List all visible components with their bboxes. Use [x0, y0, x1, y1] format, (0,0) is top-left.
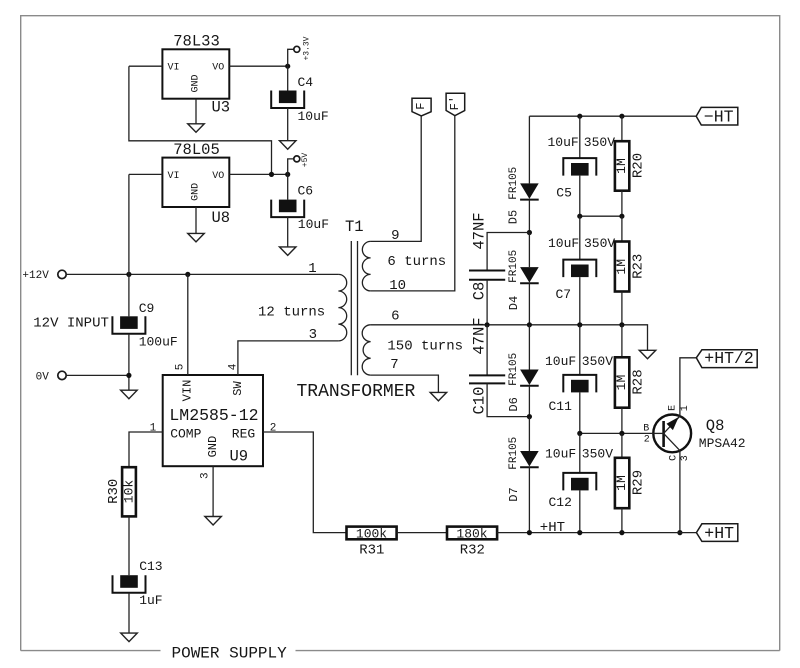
Q8 pin labels E 1	[668, 405, 691, 411]
node +5V junction	[285, 172, 290, 177]
svg-text:C11: C11	[549, 399, 573, 414]
node mid rail C8	[485, 322, 490, 327]
label +5V	[301, 153, 310, 168]
wire R30 to C13	[128, 516, 130, 575]
svg-text:R31: R31	[359, 542, 384, 558]
svg-text:+HT: +HT	[540, 520, 565, 536]
svg-text:R28: R28	[631, 369, 647, 394]
wire C6 to ground	[287, 217, 289, 247]
wire C9 to 0V rail	[128, 334, 130, 390]
svg-text:VO: VO	[212, 171, 224, 182]
wire D5 to node	[528, 200, 530, 233]
ground below T1 pin 7	[430, 392, 447, 401]
svg-text:1M: 1M	[614, 158, 629, 174]
wire R29 bottom to +HT rail	[621, 508, 623, 532]
svg-text:1M: 1M	[614, 259, 629, 275]
svg-text:D6: D6	[507, 397, 521, 411]
wire C7 top	[579, 216, 581, 259]
ground below U9	[205, 517, 222, 526]
node D5-D4 to C8	[527, 230, 532, 235]
capacitor C13	[113, 559, 163, 608]
T1 pin 1 number	[308, 261, 316, 277]
wire R20 top	[621, 116, 623, 141]
node +12V to U9 VIN	[185, 272, 190, 277]
svg-text:C9: C9	[139, 301, 155, 316]
svg-text:2: 2	[270, 422, 277, 434]
wire C5 bottom to rail B	[579, 176, 581, 217]
Q8 pin labels C 3	[668, 455, 690, 461]
svg-text:−HT: −HT	[704, 108, 734, 127]
svg-text:R23: R23	[631, 254, 647, 279]
wire R28 bottom to rail D	[621, 408, 623, 434]
diode D5 FR105	[506, 167, 538, 225]
svg-text:9: 9	[391, 228, 399, 244]
hierarchical flag F	[412, 98, 431, 116]
wire U8 VI pin	[129, 173, 163, 175]
svg-text:C7: C7	[556, 287, 572, 302]
diode D7 FR105	[507, 437, 539, 502]
wire +12V rail to transformer pin 1	[66, 273, 338, 275]
pin number 1	[150, 422, 157, 434]
svg-text:350V: 350V	[582, 447, 613, 462]
wire -HT rail	[529, 115, 696, 117]
svg-text:R30: R30	[106, 479, 122, 504]
svg-text:GND: GND	[191, 183, 202, 201]
wire +3.3V node to C4	[287, 66, 289, 90]
wire to +5V terminal	[288, 159, 294, 175]
T1 secondary winding 6 turns	[362, 241, 446, 291]
svg-text:5: 5	[175, 364, 187, 371]
svg-text:C13: C13	[139, 559, 162, 574]
svg-text:3: 3	[199, 472, 211, 479]
wire D6 to node	[528, 386, 530, 417]
node +HT C12	[577, 530, 582, 535]
node rail D C11	[577, 431, 582, 436]
node +HT R29	[619, 530, 624, 535]
svg-text:E: E	[668, 405, 679, 411]
wire D7 top	[528, 417, 530, 451]
wire C5 top	[579, 116, 581, 158]
svg-text:D7: D7	[507, 487, 521, 501]
svg-text:47NF: 47NF	[471, 212, 489, 249]
ground below U8	[188, 233, 205, 242]
wire C11 top	[579, 325, 581, 375]
svg-text:350V: 350V	[584, 135, 615, 150]
svg-text:FR105: FR105	[508, 167, 520, 200]
T1 pin 6 number	[391, 309, 399, 325]
svg-text:C: C	[668, 455, 679, 461]
svg-text:6 turns: 6 turns	[387, 254, 446, 270]
svg-text:LM2585-12: LM2585-12	[169, 406, 258, 425]
wire R23 bottom to mid rail	[621, 292, 623, 325]
transistor Q8 MPSA42	[652, 415, 745, 453]
svg-text:MPSA42: MPSA42	[699, 436, 746, 451]
capacitor C6	[271, 184, 329, 232]
wire diode chain top	[528, 116, 530, 183]
wire T1 pin 7 to ground	[371, 375, 439, 392]
node mid rail diode chain	[527, 322, 532, 327]
svg-text:U9: U9	[230, 448, 249, 466]
node rail B C5	[577, 214, 582, 219]
svg-text:3: 3	[309, 327, 317, 343]
ground below C4	[279, 141, 296, 150]
wire D4 top	[528, 233, 530, 268]
hierarchical flag F'	[446, 93, 465, 116]
svg-text:150 turns: 150 turns	[387, 339, 463, 355]
svg-text:R32: R32	[460, 542, 485, 558]
capacitor C12 10uF 350V	[545, 447, 613, 511]
pin number 5	[175, 364, 187, 371]
wire C12 top	[579, 433, 581, 473]
wire T1 pin 9 to flag F	[371, 116, 422, 241]
svg-text:COMP: COMP	[170, 427, 201, 442]
terminal circle 0V	[58, 371, 66, 379]
wire U3 VI feed from +5V node	[129, 66, 272, 174]
svg-text:10uF: 10uF	[298, 109, 329, 124]
hierarchical flag -HT	[696, 107, 738, 126]
wire U9 COMP pin 1	[129, 432, 163, 467]
svg-text:VI: VI	[168, 171, 180, 182]
wire D6 top	[528, 325, 530, 370]
label +3.3V	[302, 36, 311, 60]
node +3.3V junction	[285, 64, 290, 69]
ground at secondary mid rail	[639, 350, 656, 359]
node +12V to C9	[126, 272, 131, 277]
wire U9 GND pin 3	[212, 466, 214, 516]
node 0V junction	[126, 373, 131, 378]
svg-text:U3: U3	[212, 99, 231, 117]
wire 0V rail	[66, 374, 129, 376]
pin number 4	[227, 363, 239, 370]
wire to +3.3V terminal	[288, 49, 294, 66]
svg-text:POWER SUPPLY: POWER SUPPLY	[172, 644, 288, 662]
svg-text:10uF: 10uF	[545, 354, 576, 369]
svg-text:U8: U8	[212, 209, 231, 227]
svg-text:VO: VO	[212, 63, 224, 74]
T1 primary winding 12 turns	[258, 274, 347, 341]
wire C7 bottom to mid rail	[579, 277, 581, 325]
capacitor C9	[112, 301, 177, 350]
wire +5V node to C6	[287, 174, 289, 199]
label 12V INPUT	[33, 316, 109, 332]
svg-text:1: 1	[308, 261, 316, 277]
wire U9 SW pin 4 to transformer pin 3	[238, 341, 339, 375]
label 0V	[36, 371, 50, 383]
transformer T1	[297, 218, 416, 402]
wire U8 GND pin	[195, 207, 197, 233]
svg-text:C10: C10	[471, 387, 489, 415]
diode D4 FR105	[507, 250, 539, 310]
node mid rail C7	[577, 322, 582, 327]
pin number 3	[199, 472, 211, 479]
wire C12 bottom to +HT rail	[579, 490, 581, 532]
wire R20 bottom to rail B	[621, 191, 623, 217]
wire +12V node to C9	[128, 274, 130, 316]
svg-text:D5: D5	[506, 210, 520, 224]
capacitor C4	[271, 75, 329, 124]
svg-text:100k: 100k	[356, 527, 387, 542]
svg-text:78L33: 78L33	[173, 33, 220, 51]
terminal circle +12V	[58, 270, 66, 278]
svg-text:F: F	[414, 103, 428, 110]
node D6-D7 to C10	[527, 414, 532, 419]
wire C8 to mid rail	[486, 280, 488, 325]
sheet title POWER SUPPLY	[172, 644, 288, 662]
resistor R30	[106, 467, 136, 516]
svg-text:10uF: 10uF	[298, 217, 329, 232]
resistor R28 1M	[614, 357, 647, 407]
svg-text:1M: 1M	[614, 375, 629, 391]
svg-text:1: 1	[150, 422, 157, 434]
node U8 VO to U3 VI	[269, 172, 274, 177]
svg-text:B: B	[643, 424, 649, 435]
wire rail B	[580, 215, 622, 217]
svg-text:Q8: Q8	[706, 417, 725, 435]
diode D6 FR105	[507, 353, 539, 412]
capacitor C7 10uF 350V	[548, 236, 615, 302]
resistor R20 1M	[614, 141, 647, 191]
svg-text:1M: 1M	[614, 475, 629, 491]
svg-text:C12: C12	[549, 495, 572, 510]
svg-text:1uF: 1uF	[139, 593, 162, 608]
wire C9 branch up to U8 VI	[128, 174, 130, 274]
ground below C6	[279, 247, 296, 256]
hierarchical flag +HT	[696, 524, 737, 543]
regulator U8 78L05 box	[162, 141, 230, 227]
svg-text:FR105: FR105	[508, 250, 520, 283]
capacitor C5 10uF 350V	[548, 135, 616, 200]
svg-text:12V INPUT: 12V INPUT	[33, 316, 109, 332]
svg-text:12 turns: 12 turns	[258, 305, 325, 321]
node mid rail R23	[619, 322, 624, 327]
node +HT diode chain	[527, 530, 532, 535]
svg-text:0V: 0V	[36, 371, 50, 383]
wire C10 top	[486, 325, 488, 376]
node rail B R20	[619, 214, 624, 219]
svg-text:VIN: VIN	[181, 380, 195, 402]
svg-text:TRANSFORMER: TRANSFORMER	[297, 382, 416, 402]
wire U3 VI pin	[129, 65, 163, 67]
svg-text:GND: GND	[206, 436, 220, 458]
svg-text:REG: REG	[232, 427, 255, 442]
svg-text:10: 10	[389, 278, 406, 294]
node rail D R28	[619, 431, 624, 436]
wire +HT rail	[497, 532, 696, 534]
svg-text:78L05: 78L05	[173, 141, 220, 159]
svg-text:1: 1	[680, 405, 691, 411]
svg-text:T1: T1	[345, 218, 364, 236]
node Q8 collector on +HT rail	[677, 530, 682, 535]
wire U3 GND pin	[195, 99, 197, 124]
svg-text:C4: C4	[298, 75, 314, 90]
svg-text:FR105: FR105	[508, 353, 520, 386]
svg-text:6: 6	[391, 309, 399, 325]
wire U3 VO pin	[229, 65, 287, 67]
Q8 pin labels B 2	[643, 424, 649, 446]
wire U8 VO pin	[229, 173, 287, 175]
svg-text:F': F'	[448, 96, 462, 110]
svg-text:R29: R29	[631, 470, 647, 495]
ground below C13	[121, 633, 138, 642]
T1 pin 7 number	[390, 357, 398, 373]
svg-text:180k: 180k	[456, 527, 487, 542]
wire T1 pin 6 rail to ground corner	[371, 325, 648, 351]
svg-text:C6: C6	[298, 184, 314, 199]
svg-text:C5: C5	[556, 186, 572, 201]
svg-text:10uF: 10uF	[548, 236, 579, 251]
node -HT to R20	[619, 114, 624, 119]
label +12V	[22, 270, 49, 282]
svg-text:SW: SW	[231, 381, 245, 396]
svg-text:7: 7	[390, 357, 398, 373]
svg-text:GND: GND	[191, 74, 202, 92]
resistor R32 180k	[447, 527, 497, 559]
svg-text:47NF: 47NF	[471, 317, 489, 354]
regulator U3 78L33 box	[162, 33, 230, 117]
wire R28 top	[621, 325, 623, 358]
wire U9 REG pin 2	[263, 432, 347, 533]
svg-text:4: 4	[227, 363, 239, 370]
wire U9 VIN pin 5	[187, 274, 189, 375]
resistor R31 100k	[347, 527, 397, 559]
wire rail D to Q8 base	[580, 432, 653, 434]
T1 pin 9 number	[391, 228, 399, 244]
capacitor C11 10uF 350V	[545, 354, 613, 414]
terminal circle +3.3V	[294, 46, 300, 52]
svg-text:10uF: 10uF	[548, 135, 579, 150]
wire D7 to +HT rail	[528, 467, 530, 532]
wire Q8 collector to +HT rail	[679, 451, 681, 533]
svg-text:350V: 350V	[584, 236, 615, 251]
T1 secondary winding 150 turns	[362, 325, 463, 375]
wire C10 to chain node	[487, 383, 529, 416]
node -HT to C5	[577, 114, 582, 119]
hierarchical flag +HT/2	[696, 349, 757, 368]
wire C4 to ground	[287, 108, 289, 141]
capacitor C8 47NF	[469, 212, 505, 300]
wire C13 to ground	[128, 593, 130, 633]
svg-text:100uF: 100uF	[139, 334, 178, 349]
label +HT net	[540, 520, 565, 536]
svg-text:D4: D4	[507, 296, 521, 310]
wire R23 top	[621, 216, 623, 241]
T1 pin 10 number	[389, 278, 406, 294]
T1 pin 3 number	[309, 327, 317, 343]
svg-text:2: 2	[644, 435, 650, 446]
svg-text:350V: 350V	[582, 354, 613, 369]
wire R31 to R32	[397, 532, 447, 534]
svg-text:+HT: +HT	[704, 524, 734, 543]
svg-text:+3.3V: +3.3V	[302, 36, 311, 60]
wire C11 bottom to rail D	[579, 392, 581, 433]
wire T1 pin 10 to flag F'	[371, 116, 455, 291]
svg-text:+HT/2: +HT/2	[704, 349, 754, 368]
ground below U3	[188, 124, 205, 133]
wire node to C8	[487, 233, 529, 271]
svg-text:3: 3	[680, 455, 691, 461]
svg-text:+5V: +5V	[301, 153, 310, 168]
svg-text:FR105: FR105	[508, 437, 520, 470]
svg-text:VI: VI	[168, 63, 180, 74]
resistor R29 1M	[614, 458, 647, 508]
pin number 2	[270, 422, 277, 434]
svg-text:10k: 10k	[121, 480, 136, 504]
resistor R23 1M	[614, 242, 647, 292]
svg-text:10uF: 10uF	[545, 447, 576, 462]
wire R29 top	[621, 433, 623, 457]
capacitor C10 47NF	[469, 317, 505, 414]
svg-text:+12V: +12V	[22, 270, 49, 282]
ground below 0V	[121, 390, 137, 399]
svg-text:R20: R20	[631, 153, 647, 178]
wire D4 to mid rail	[528, 283, 530, 325]
wire Q8 emitter to +HT/2 flag	[680, 358, 696, 416]
regulator U9 LM2585-12 box	[163, 375, 263, 466]
terminal circle +5V	[294, 156, 300, 162]
svg-text:C8: C8	[471, 282, 489, 301]
